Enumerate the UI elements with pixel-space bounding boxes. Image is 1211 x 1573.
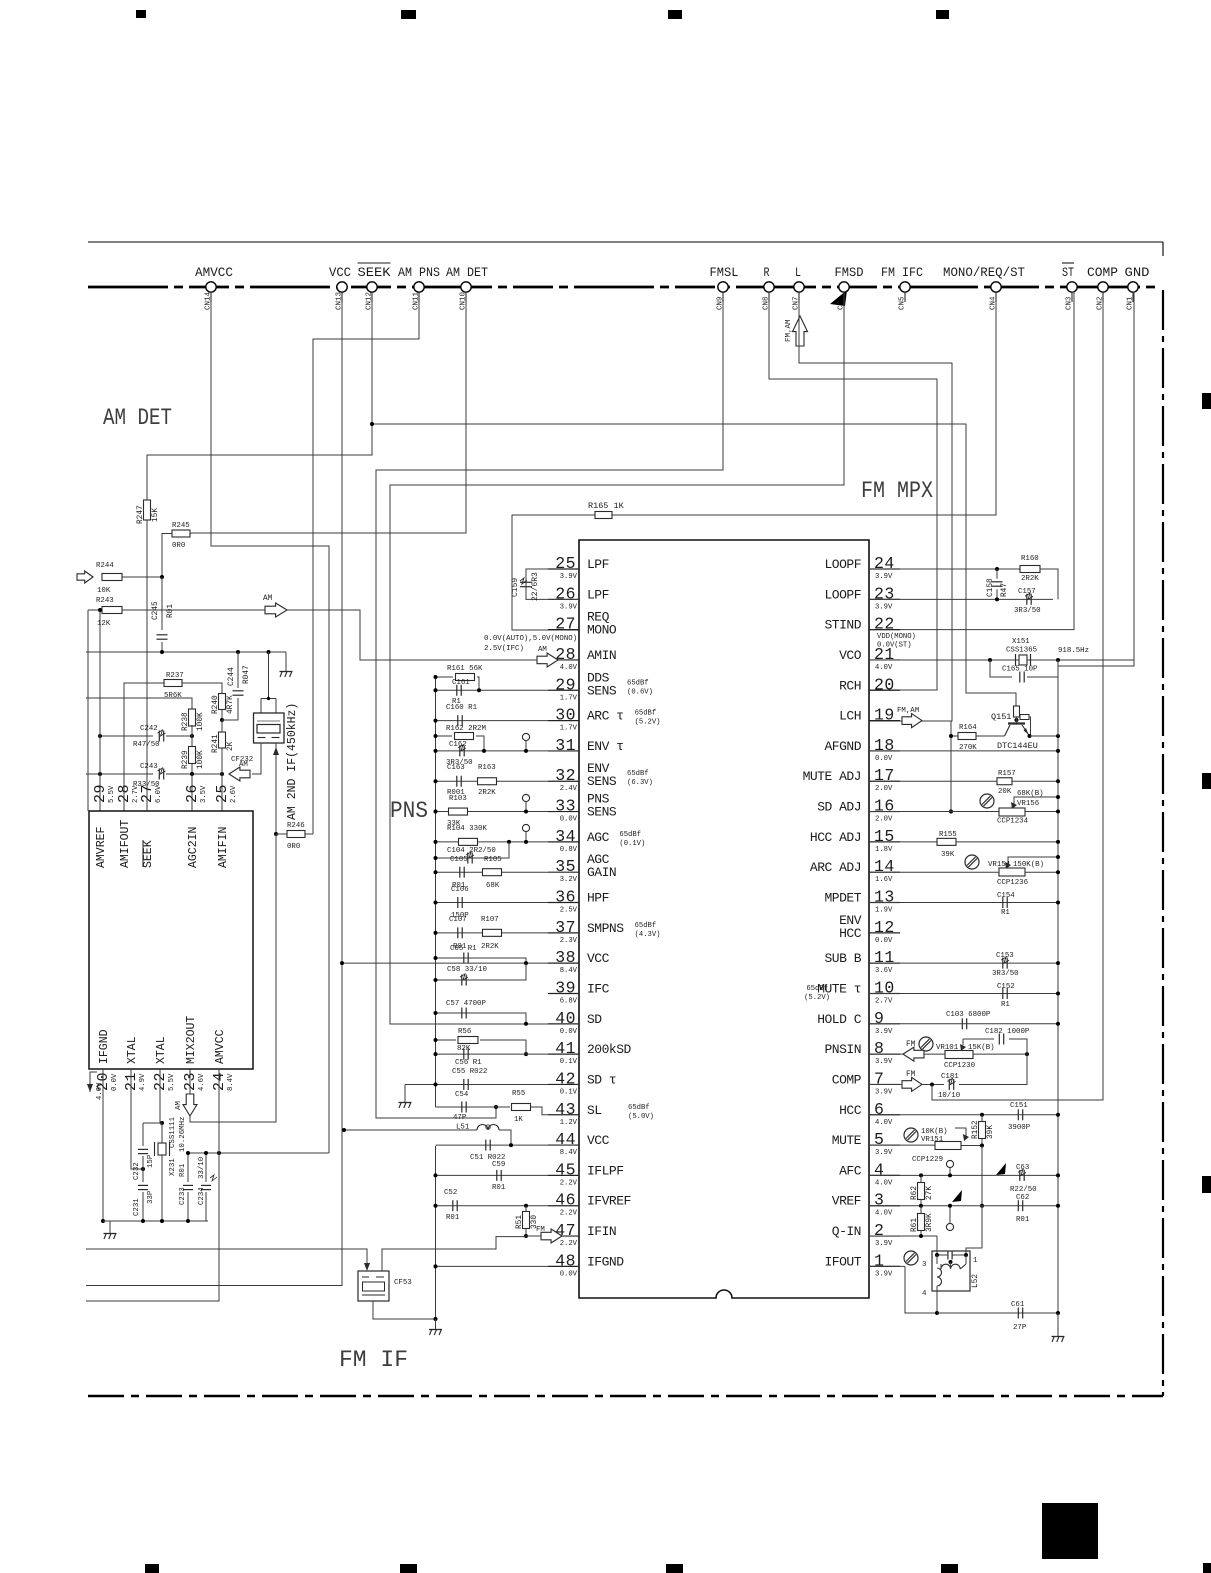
svg-text:FM: FM <box>906 1071 916 1079</box>
svg-text:R56: R56 <box>458 1028 471 1036</box>
resistor R155 39K <box>869 841 937 843</box>
svg-text:10K: 10K <box>97 587 111 595</box>
capacitor C104 2R2/50 <box>436 842 510 858</box>
svg-text:MONO: MONO <box>587 623 617 638</box>
capacitor C105 R01 <box>436 871 549 873</box>
svg-text:C163: C163 <box>447 764 465 772</box>
marker flag above pin3 line <box>952 1190 962 1202</box>
wire pin22 XTAL down <box>159 1069 161 1123</box>
right dash-dot page border <box>1162 290 1164 1396</box>
svg-text:R244: R244 <box>96 562 114 570</box>
svg-text:C59: C59 <box>492 1161 505 1169</box>
resistor R105 68K <box>483 869 502 876</box>
svg-text:R01: R01 <box>492 1184 506 1192</box>
svg-text:IFGND: IFGND <box>587 1254 624 1269</box>
FM,AM up-arrow on L line <box>793 316 808 346</box>
svg-text:3.9V: 3.9V <box>875 1088 893 1096</box>
capacitor C158 R47 <box>992 581 1003 583</box>
svg-text:38: 38 <box>555 948 576 967</box>
wire right rail from Q151 down <box>1057 736 1059 1313</box>
svg-text:AM PNS: AM PNS <box>398 265 440 280</box>
bottom dash-dot page border <box>88 1395 1163 1398</box>
capacitor C107 R01 <box>436 932 549 934</box>
wire VCC trunk CN13 <box>86 292 342 1286</box>
capacitor C163 R001 <box>436 780 549 782</box>
svg-text:MIX2OUT: MIX2OUT <box>185 1016 198 1064</box>
svg-text:5: 5 <box>874 1130 884 1149</box>
svg-text:HCC ADJ: HCC ADJ <box>810 830 861 845</box>
svg-text:C157: C157 <box>1018 588 1036 596</box>
capacitor C61 27P <box>937 1312 1058 1314</box>
svg-text:LPF: LPF <box>587 557 609 572</box>
svg-text:GND: GND <box>1125 265 1150 280</box>
svg-text:C52: C52 <box>444 1189 457 1197</box>
svg-text:10/10: 10/10 <box>938 1092 960 1100</box>
svg-text:R103: R103 <box>449 795 467 803</box>
ground below rail at FM IF <box>435 1319 437 1329</box>
svg-text:(5.2V): (5.2V) <box>804 994 830 1002</box>
svg-text:17: 17 <box>874 766 895 785</box>
svg-text:R01: R01 <box>1016 1216 1030 1224</box>
svg-text:C65 R1: C65 R1 <box>450 945 477 953</box>
svg-text:48: 48 <box>555 1251 576 1270</box>
wire CF53 ground lead <box>373 1301 436 1319</box>
svg-text:100K: 100K <box>197 750 205 769</box>
svg-text:C56 R1: C56 R1 <box>455 1059 482 1067</box>
wire Q151 collector to rail <box>1030 735 1059 737</box>
crystal X151 CSS1365 <box>869 659 1134 661</box>
svg-text:C244: C244 <box>228 667 236 686</box>
capacitor C56 R1 <box>436 1053 549 1055</box>
svg-text:C57 4700P: C57 4700P <box>446 1000 486 1008</box>
svg-text:FMSD: FMSD <box>835 265 864 280</box>
svg-text:65dBf: 65dBf <box>806 985 828 993</box>
svg-text:3: 3 <box>922 1261 926 1269</box>
svg-text:4.0V: 4.0V <box>875 1179 893 1187</box>
svg-text:2.7V: 2.7V <box>875 997 893 1005</box>
capacitor C153 3R3/50 <box>869 962 1058 964</box>
svg-text:25: 25 <box>214 784 231 803</box>
wire R243 left to AM box <box>87 610 89 811</box>
svg-text:PNS: PNS <box>390 798 428 824</box>
svg-text:14: 14 <box>874 857 895 876</box>
wire pin24 AMVCC down to bottom line <box>86 1069 219 1301</box>
svg-text:42: 42 <box>555 1069 576 1088</box>
pot VR154 150K(B) CCP1236 <box>965 855 979 869</box>
svg-text:33P: 33P <box>147 1190 155 1204</box>
svg-text:MPDET: MPDET <box>824 891 861 906</box>
big black square bottom right <box>1042 1503 1098 1559</box>
svg-text:2.0V: 2.0V <box>875 785 893 793</box>
svg-text:C61: C61 <box>1011 1301 1025 1309</box>
svg-text:ENV τ: ENV τ <box>587 739 624 754</box>
svg-text:4.6V: 4.6V <box>198 1073 206 1091</box>
svg-text:3R3/50: 3R3/50 <box>992 970 1019 978</box>
wire pin48 IFGND line <box>436 1265 549 1267</box>
wire MIX2OUT chain up from pin23 <box>190 834 276 1122</box>
svg-text:0.0V: 0.0V <box>560 1028 578 1036</box>
svg-text:(5.0V): (5.0V) <box>628 1113 654 1121</box>
svg-text:R47/50: R47/50 <box>133 741 160 749</box>
capacitor C233 R01 <box>187 1153 189 1182</box>
svg-text:65dBf: 65dBf <box>627 770 649 778</box>
svg-text:PNSIN: PNSIN <box>824 1042 861 1057</box>
wire pin3 branch down to L52 pin1 <box>966 1206 982 1255</box>
svg-text:CCP1234: CCP1234 <box>997 818 1029 826</box>
svg-text:2.5V: 2.5V <box>560 907 578 915</box>
svg-text:FM IF: FM IF <box>339 1347 408 1373</box>
svg-text:5R6K: 5R6K <box>164 692 182 700</box>
svg-text:C103 6800P: C103 6800P <box>946 1011 991 1019</box>
svg-text:4.6V: 4.6V <box>96 1082 104 1100</box>
svg-text:0.0V: 0.0V <box>875 755 893 763</box>
svg-text:100K: 100K <box>197 712 205 731</box>
svg-text:R47: R47 <box>1001 583 1009 597</box>
svg-text:C233: C233 <box>179 1187 187 1205</box>
svg-text:1: 1 <box>874 1251 884 1270</box>
svg-text:C151: C151 <box>1010 1102 1028 1110</box>
svg-text:0.8V: 0.8V <box>560 846 578 854</box>
capacitor C234 33/10 <box>205 1153 207 1182</box>
resistor R237 5R6K <box>124 683 164 811</box>
IC main block FM MPX / PNS (pins 25-48 left, 24-1 right) <box>579 540 869 1298</box>
wire FMSD trunk CN6 <box>390 292 844 1024</box>
svg-text:AMVREF: AMVREF <box>95 826 108 868</box>
svg-text:C160 R1: C160 R1 <box>446 704 478 712</box>
svg-text:AM 2ND IF(450kHz): AM 2ND IF(450kHz) <box>286 703 299 820</box>
svg-text:37: 37 <box>555 918 576 937</box>
svg-text:26: 26 <box>555 584 576 603</box>
resistor R104 330K <box>436 841 549 843</box>
svg-text:3.6V: 3.6V <box>875 967 893 975</box>
wire pin26 AGC2IN stub <box>191 774 193 811</box>
svg-text:AM: AM <box>538 646 547 654</box>
resistor R51 330 <box>523 1212 530 1229</box>
capacitor C244 R047 <box>237 652 239 688</box>
crystal X231 CSS1111 10.2GMHz <box>161 1123 163 1143</box>
capacitor C243 R33/50 <box>86 773 153 775</box>
svg-text:SD τ: SD τ <box>587 1072 616 1087</box>
svg-text:(5.2V): (5.2V) <box>635 719 661 727</box>
svg-text:R22/50: R22/50 <box>1010 1186 1037 1194</box>
svg-text:65dBf: 65dBf <box>628 1104 650 1112</box>
svg-text:AM: AM <box>263 595 273 603</box>
svg-text:12K: 12K <box>97 620 111 628</box>
svg-text:C158: C158 <box>987 578 995 597</box>
svg-text:0.0V: 0.0V <box>875 937 893 945</box>
svg-text:AM: AM <box>239 761 248 769</box>
wire horizontal 652 line with ground <box>86 651 286 653</box>
svg-text:LCH: LCH <box>839 709 861 724</box>
wire left edge to R238 chain <box>86 698 192 710</box>
registration mark right edge 2 <box>1202 773 1211 789</box>
wire pin25 AMIFIN stub <box>221 774 223 811</box>
svg-text:6.8V: 6.8V <box>560 997 578 1005</box>
svg-text:4.0V: 4.0V <box>875 664 893 672</box>
svg-text:0.1V: 0.1V <box>560 1058 578 1066</box>
resistor R164 270K <box>951 720 952 722</box>
resistor R245 0R0 <box>172 530 190 537</box>
svg-text:47P: 47P <box>453 1114 467 1122</box>
svg-text:R237: R237 <box>166 672 184 680</box>
svg-text:R238: R238 <box>182 712 190 731</box>
svg-text:CN3: CN3 <box>1066 296 1074 310</box>
svg-text:SMPNS: SMPNS <box>587 921 624 936</box>
svg-text:1.2V: 1.2V <box>560 1119 578 1127</box>
svg-text:R155: R155 <box>939 831 957 839</box>
capacitor C245 R01 <box>161 577 163 630</box>
svg-text:2.3V: 2.3V <box>560 937 578 945</box>
ceramic filter CF232 AM 2ND IF(450kHz) <box>268 652 270 699</box>
svg-text:15P: 15P <box>147 1154 155 1168</box>
wire SEEK trunk CN12 <box>147 292 372 811</box>
svg-text:COMP: COMP <box>832 1072 862 1087</box>
svg-text:VCC: VCC <box>587 1133 610 1148</box>
svg-text:20K: 20K <box>998 788 1012 796</box>
IF transformer L52 <box>932 1251 970 1291</box>
svg-text:33: 33 <box>555 797 576 816</box>
svg-text:2.5V(IFC): 2.5V(IFC) <box>484 645 524 653</box>
svg-text:28: 28 <box>116 784 133 803</box>
svg-text:C181: C181 <box>941 1073 959 1081</box>
svg-text:C154: C154 <box>997 892 1015 900</box>
svg-text:AFGND: AFGND <box>824 739 861 754</box>
svg-text:R01: R01 <box>167 604 175 618</box>
screw symbol near L52 <box>904 1251 918 1265</box>
svg-text:4.0V: 4.0V <box>875 1119 893 1127</box>
svg-text:SEEK: SEEK <box>358 265 391 280</box>
open arrow on AM line <box>265 603 287 617</box>
svg-text:C245: C245 <box>152 601 160 620</box>
svg-text:27: 27 <box>555 615 576 634</box>
resistor R244 10K <box>102 574 122 581</box>
svg-text:35: 35 <box>555 857 576 876</box>
test point at pin31 <box>522 733 529 740</box>
svg-text:0.0V: 0.0V <box>560 1270 578 1278</box>
svg-text:VREF: VREF <box>832 1194 861 1209</box>
svg-text:2.2V: 2.2V <box>560 1210 578 1218</box>
svg-text:3.9V: 3.9V <box>875 1028 893 1036</box>
svg-text:5.5V: 5.5V <box>108 785 116 803</box>
capacitor C152 R1 <box>869 992 1058 994</box>
pot VR151 10K(B) CCP1229 at pin5 MUTE <box>904 1128 918 1142</box>
ground at right rail bottom <box>1057 1313 1059 1336</box>
svg-text:36: 36 <box>555 888 576 907</box>
svg-text:1K: 1K <box>514 1116 523 1124</box>
svg-text:AFC: AFC <box>839 1163 862 1178</box>
svg-text:3.9V: 3.9V <box>875 1240 893 1248</box>
capacitor C62 R01 <box>869 1205 1058 1207</box>
svg-text:AGC: AGC <box>587 830 610 845</box>
svg-text:SUB B: SUB B <box>824 951 861 966</box>
svg-text:30: 30 <box>555 706 576 725</box>
svg-text:34: 34 <box>555 827 576 846</box>
svg-text:0R0: 0R0 <box>287 843 300 851</box>
registration mark right edge 1 <box>1202 393 1211 409</box>
marker flag above pin4 line <box>996 1163 1006 1175</box>
svg-text:16: 16 <box>874 797 895 816</box>
svg-text:XTAL: XTAL <box>126 1036 139 1064</box>
svg-text:IFGND: IFGND <box>98 1029 111 1064</box>
svg-text:MUTE ADJ: MUTE ADJ <box>803 769 861 784</box>
resistor R240 4R7K <box>219 694 226 710</box>
svg-text:24: 24 <box>874 554 895 573</box>
svg-text:5.5V: 5.5V <box>168 1073 176 1091</box>
svg-text:41: 41 <box>555 1039 576 1058</box>
svg-text:SEEK: SEEK <box>142 840 155 868</box>
svg-text:C106: C106 <box>451 886 469 894</box>
svg-text:33/10: 33/10 <box>198 1157 206 1179</box>
svg-text:CN5: CN5 <box>899 296 907 310</box>
svg-text:0.0V: 0.0V <box>111 1073 119 1091</box>
svg-text:27K: 27K <box>926 1186 934 1200</box>
svg-text:C159: C159 <box>511 578 520 597</box>
svg-text:10: 10 <box>874 978 895 997</box>
test point CCP1229 <box>946 1160 953 1167</box>
svg-text:65dBf: 65dBf <box>619 831 641 839</box>
capacitor C157 3R3/50 <box>869 598 1053 600</box>
svg-text:AGC2IN: AGC2IN <box>187 827 200 868</box>
svg-text:2R2K: 2R2K <box>481 943 499 951</box>
svg-text:XTAL: XTAL <box>155 1036 168 1064</box>
svg-text:FM,AM: FM,AM <box>897 707 919 715</box>
svg-text:R107: R107 <box>481 916 499 924</box>
svg-text:3.9V: 3.9V <box>875 1149 893 1157</box>
svg-text:LOOPF: LOOPF <box>824 557 861 572</box>
capacitor C232 15P <box>142 1123 144 1146</box>
svg-text:18: 18 <box>874 736 895 755</box>
svg-text:C152: C152 <box>997 983 1015 991</box>
svg-text:R62: R62 <box>911 1186 919 1200</box>
svg-text:HCC: HCC <box>839 1103 862 1118</box>
svg-text:0.0V(ST): 0.0V(ST) <box>877 642 912 650</box>
wire from left edge to CF53 input <box>86 1249 367 1266</box>
svg-text:10K(B): 10K(B) <box>921 1128 948 1136</box>
svg-text:29: 29 <box>555 675 576 694</box>
svg-text:15K: 15K <box>152 508 160 522</box>
svg-text:8.4V: 8.4V <box>560 1149 578 1157</box>
svg-text:C232: C232 <box>133 1162 141 1180</box>
capacitor C160 R1 <box>436 720 549 722</box>
capacitor C162 3R3/50 <box>436 750 549 752</box>
capacitor C103 6800P <box>869 1023 1058 1025</box>
wire pin29 AMVREF stub up <box>99 610 101 811</box>
svg-text:STIND: STIND <box>824 618 861 633</box>
svg-text:28: 28 <box>555 645 576 664</box>
svg-text:23: 23 <box>182 1072 199 1091</box>
svg-text:C54: C54 <box>455 1091 469 1099</box>
wire AMVCC line to C233/C234 and pin24 <box>188 1152 329 1154</box>
svg-text:2.2V: 2.2V <box>560 1240 578 1248</box>
svg-text:918.5Hz: 918.5Hz <box>1058 647 1089 655</box>
capacitor C51 R022 <box>436 1144 549 1146</box>
svg-text:4.9V: 4.9V <box>139 1073 147 1091</box>
svg-text:32: 32 <box>555 766 576 785</box>
resistor R103 33K <box>436 811 549 813</box>
svg-text:C107: C107 <box>449 916 467 924</box>
svg-text:AMVCC: AMVCC <box>214 1029 227 1064</box>
registration mark bottom right corner <box>1203 1563 1211 1573</box>
resistor R246 0R0 <box>275 743 277 834</box>
wire pin21 XTAL to C231/C232 node <box>131 1069 143 1169</box>
svg-text:R161 56K: R161 56K <box>447 665 483 673</box>
svg-text:45: 45 <box>555 1160 576 1179</box>
svg-text:CCP1229: CCP1229 <box>912 1156 943 1164</box>
capacitor C165 10P <box>990 660 1012 677</box>
svg-text:2K: 2K <box>227 741 235 751</box>
capacitor C55 R022 <box>405 1083 548 1085</box>
svg-text:3.9V: 3.9V <box>875 573 893 581</box>
FMSD filled triangle marker <box>830 290 847 306</box>
far-left small arrow marker <box>90 1072 97 1092</box>
svg-text:(4.3V): (4.3V) <box>635 931 661 939</box>
svg-text:R047: R047 <box>243 665 251 684</box>
test point at pin34 <box>522 824 529 831</box>
svg-text:2.4V: 2.4V <box>560 785 578 793</box>
svg-text:3900P: 3900P <box>1008 1124 1031 1132</box>
wire VR151 branch down to pin3 line <box>981 1146 983 1206</box>
registration mark top 1 <box>136 10 146 18</box>
wire MONO/REQ/ST trunk CN4 via R165 to pin27 <box>612 292 996 515</box>
svg-text:31: 31 <box>555 736 576 755</box>
svg-text:68K: 68K <box>486 882 500 890</box>
svg-text:Q-IN: Q-IN <box>832 1224 861 1239</box>
svg-text:SD: SD <box>587 1012 602 1027</box>
svg-text:AM DET: AM DET <box>446 265 488 280</box>
svg-text:10.26MHz: 10.26MHz <box>179 1117 187 1152</box>
svg-text:2.6V: 2.6V <box>230 785 238 803</box>
svg-text:29: 29 <box>92 784 109 803</box>
svg-text:6.0V: 6.0V <box>155 785 163 803</box>
svg-text:L51: L51 <box>456 1124 470 1132</box>
svg-text:LPF: LPF <box>587 587 609 602</box>
capacitor C52 R01 <box>436 1205 549 1207</box>
wire FMSL trunk CN9 <box>376 292 723 1118</box>
wire PNS left rail (upper) <box>435 677 437 1107</box>
svg-text:SD ADJ: SD ADJ <box>817 800 861 815</box>
svg-text:13: 13 <box>874 888 895 907</box>
resistor R238 100K <box>189 709 196 726</box>
svg-text:27P: 27P <box>1013 1324 1027 1332</box>
svg-text:4.0V: 4.0V <box>560 664 578 672</box>
wire GND trunk CN1 to pin21 VCO line <box>1058 292 1134 666</box>
resistor R157 20K <box>869 780 997 782</box>
svg-text:R245: R245 <box>172 522 190 530</box>
ground symbol bottom left <box>109 1221 111 1233</box>
svg-text:SENS: SENS <box>587 774 617 789</box>
svg-text:AMIFIN: AMIFIN <box>217 827 230 868</box>
resistor R162 2R2M <box>436 735 453 737</box>
svg-text:R241: R241 <box>212 734 220 753</box>
capacitor C159 22/6R3 across LPF pins 25-26 <box>526 569 548 599</box>
svg-text:9: 9 <box>874 1009 884 1028</box>
svg-text:C58 33/10: C58 33/10 <box>447 966 487 974</box>
svg-text:23: 23 <box>874 584 895 603</box>
svg-text:HOLD C: HOLD C <box>817 1012 862 1027</box>
svg-text:6: 6 <box>874 1100 884 1119</box>
svg-text:SENS: SENS <box>587 805 617 820</box>
svg-text:R163: R163 <box>478 764 496 772</box>
svg-text:AMIFOUT: AMIFOUT <box>119 820 132 868</box>
svg-text:2R2K: 2R2K <box>478 789 496 797</box>
svg-text:VR156: VR156 <box>1017 800 1039 808</box>
wire pin1 IFOUT to C61 line <box>869 1265 905 1267</box>
svg-text:65dBf: 65dBf <box>627 679 649 687</box>
capacitor C151 3900P <box>869 1114 1058 1116</box>
svg-text:C62: C62 <box>1016 1194 1029 1202</box>
svg-text:0.0V: 0.0V <box>560 816 578 824</box>
resistor R56 82K <box>436 1039 457 1041</box>
